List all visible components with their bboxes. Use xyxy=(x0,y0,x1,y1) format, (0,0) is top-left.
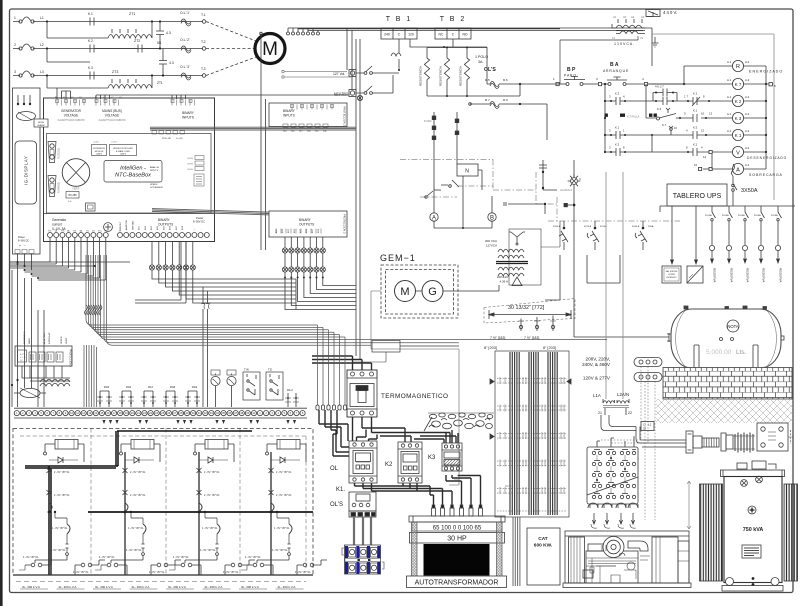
svg-text:A: A xyxy=(736,167,740,173)
GEM-1 dashed enclosure xyxy=(381,265,458,318)
svg-text:21: 21 xyxy=(598,411,602,415)
branch ratings xyxy=(705,214,778,217)
svg-text:BINARY: BINARY xyxy=(182,111,195,115)
InteliGen nameplate xyxy=(104,161,162,183)
CT coil ZT3 under L3 xyxy=(47,74,153,88)
svg-text:2L- 300 k.V.A: 2L- 300 k.V.A xyxy=(278,585,296,589)
svg-text:K 1: K 1 xyxy=(735,133,742,138)
exhaust elbow xyxy=(628,541,648,551)
svg-text:GEM−1: GEM−1 xyxy=(380,253,416,263)
riser pair with wave breaks xyxy=(201,287,210,407)
svg-text:1: 1 xyxy=(14,16,16,20)
genset radiator xyxy=(569,537,585,583)
TB1 terminal block xyxy=(381,28,417,39)
svg-text:CO: CO xyxy=(92,231,95,233)
breaker feed wires top xyxy=(312,356,372,370)
RESERVA labels xyxy=(713,268,783,283)
svg-text:RA7: RA7 xyxy=(148,385,154,389)
staircase wire bundle left xyxy=(152,270,296,303)
actuator stem xyxy=(573,160,575,177)
mech dash-dot links xyxy=(400,160,680,222)
svg-text:3X70 A: 3X70 A xyxy=(584,225,592,228)
svg-text:L2A/N: L2A/N xyxy=(617,392,629,397)
svg-text:4 - IN.* 45* OL: 4 - IN.* 45* OL xyxy=(295,571,311,574)
PLC bottom wire comb xyxy=(10,238,106,281)
svg-text:V: V xyxy=(736,150,740,156)
stone band upper right xyxy=(428,413,494,419)
xfmr secondary winding xyxy=(498,267,524,276)
RS-485 sub box xyxy=(66,192,79,199)
tie row bolts xyxy=(500,377,564,494)
contactor K2 xyxy=(398,442,422,483)
svg-text:CAN 2: CAN 2 xyxy=(120,153,127,156)
svg-text:NTC-BaseBox: NTC-BaseBox xyxy=(115,173,151,179)
svg-text:+ −: + − xyxy=(19,244,26,248)
drop wires TB to PLC xyxy=(356,39,360,360)
engine block xyxy=(586,544,638,583)
voltage oval 120-277 xyxy=(634,373,662,382)
svg-text:208V, 220V,: 208V, 220V, xyxy=(586,357,611,362)
svg-text:60.00.0.5: 60.00.0.5 xyxy=(505,485,516,488)
tank legs xyxy=(692,345,760,368)
svg-text:H1: H1 xyxy=(613,15,617,19)
proteccion box leads xyxy=(22,366,70,381)
proteccion1 bottom terminals xyxy=(283,124,328,128)
PLC divider xyxy=(44,213,215,215)
capacitor K2 on L2 xyxy=(90,45,94,53)
svg-text:Power: Power xyxy=(196,216,203,220)
svg-text:3X15A: 3X15A xyxy=(754,214,761,217)
retention squares row xyxy=(605,114,657,117)
svg-text:8” [203]: 8” [203] xyxy=(543,346,556,350)
indicator lamps proteccion 2 xyxy=(282,237,325,253)
svg-text:A.TTL: A.TTL xyxy=(20,353,26,356)
autotransformer terminal insulators xyxy=(432,505,483,516)
overload O.L.2 xyxy=(181,46,191,53)
terminal T1 xyxy=(202,20,206,24)
terminal T2 xyxy=(202,47,206,51)
svg-text:K.1: K.1 xyxy=(88,12,93,16)
svg-text:4 - IN.* 45* OL: 4 - IN.* 45* OL xyxy=(200,549,216,552)
IG-DISPLAY screen xyxy=(15,141,37,204)
MODBUS link box xyxy=(34,119,48,127)
CT oval xyxy=(14,388,46,398)
svg-text:240: 240 xyxy=(384,33,390,37)
svg-text:G: G xyxy=(428,286,437,298)
UPS branch circuits xyxy=(709,206,781,258)
svg-text:ZT3: ZT3 xyxy=(112,70,118,74)
svg-text:IF MAIN CONN.: IF MAIN CONN. xyxy=(116,150,131,153)
svg-text:3X15A: 3X15A xyxy=(771,214,778,217)
phase line L2 xyxy=(13,44,203,50)
PT fuse chain a xyxy=(432,112,436,160)
svg-text:Generator: Generator xyxy=(52,218,67,222)
transformer base and wheels xyxy=(722,577,783,591)
K2/K1 bottom cross bus xyxy=(355,483,437,491)
svg-text:3x120/277VAC/0.1MB/4Hz: 3x120/277VAC/0.1MB/4Hz xyxy=(98,119,126,122)
svg-text:BINARY: BINARY xyxy=(283,109,296,113)
autotransformer top plate xyxy=(409,516,505,522)
svg-text:4 - IN.* 45* OL: 4 - IN.* 45* OL xyxy=(149,571,165,574)
svg-text:NO: NO xyxy=(462,33,467,37)
svg-text:1 - IN.* 45* OL: 1 - IN.* 45* OL xyxy=(52,527,68,530)
svg-text:RESERVA: RESERVA xyxy=(713,268,717,283)
capacitor K3 on L3 xyxy=(90,72,94,80)
svg-text:OHMS: OHMS xyxy=(187,158,194,160)
svg-text:ALTA TEMP: ALTA TEMP xyxy=(43,332,46,344)
wire motor aux to proteccion xyxy=(260,32,266,250)
bushing ribbed body xyxy=(693,436,719,448)
svg-text:VERIF: VERIF xyxy=(66,337,68,344)
svg-text:RA6: RA6 xyxy=(126,385,132,389)
coil K1 xyxy=(732,129,766,140)
diesel tank xyxy=(671,309,781,368)
svg-text:K.2: K.2 xyxy=(615,92,620,96)
L1 L2 junction box xyxy=(641,422,654,431)
RA aux contact groups xyxy=(97,391,200,407)
BP PARO stop button xyxy=(560,77,599,86)
resistencia R3 xyxy=(464,48,469,97)
autotransformer tap row xyxy=(412,522,502,531)
aux nodes right xyxy=(504,202,546,214)
one line: motor operator xyxy=(568,174,581,221)
busbar group 1 xyxy=(510,352,519,515)
proteccion wire tags xyxy=(23,331,68,344)
BA ARRANQUE start button xyxy=(602,77,645,86)
genset skid xyxy=(563,531,691,588)
svg-text:A.1: A.1 xyxy=(727,60,732,64)
left rail wires xyxy=(11,270,44,407)
starter branch 2 xyxy=(95,440,181,576)
svg-text:T/G: T/G xyxy=(73,231,77,233)
coil A ammeter xyxy=(732,163,766,174)
dim line transformer xyxy=(687,481,691,529)
PLC terminal labels top xyxy=(55,97,122,99)
capacitor K1 on L1 xyxy=(90,18,94,26)
rung K2: parallel contact box xyxy=(648,89,685,106)
svg-text:1 - IN.* 45* OL: 1 - IN.* 45* OL xyxy=(128,527,144,530)
svg-text:200 VCA: 200 VCA xyxy=(485,239,497,243)
svg-text:SPEED: SPEED xyxy=(61,336,63,344)
TERMOMAGNETICO breaker xyxy=(347,370,377,417)
svg-text:K.1: K.1 xyxy=(693,109,698,113)
svg-text:3L- 300 k.V.A: 3L- 300 k.V.A xyxy=(22,585,40,589)
bushing left plate xyxy=(686,431,693,453)
svg-text:O.L.’2’: O.L.’2’ xyxy=(180,38,190,42)
svg-text:2L- 300 k.V.A: 2L- 300 k.V.A xyxy=(132,585,150,589)
tank gauge dots xyxy=(720,338,734,341)
M-G shaft xyxy=(416,290,423,292)
svg-text:T.3: T.3 xyxy=(201,67,206,71)
tank top fittings xyxy=(684,306,784,340)
svg-text:K.3: K.3 xyxy=(657,107,662,111)
PROTECCION 2 module upper xyxy=(269,103,347,127)
lamp B xyxy=(488,196,496,221)
thyristor bus xyxy=(88,511,313,513)
svg-text:RA5: RA5 xyxy=(104,385,110,389)
coil K2 xyxy=(732,95,766,106)
PLC right mini boxes xyxy=(194,156,204,187)
svg-text:8” [203]: 8” [203] xyxy=(484,346,497,350)
gray band PLC outputs to proteccion2 xyxy=(152,209,269,215)
rung K3: K7 timed switch xyxy=(646,84,732,122)
bundle corner risers xyxy=(135,241,296,310)
svg-text:K.2: K.2 xyxy=(88,39,93,43)
svg-text:3X5A: 3X5A xyxy=(648,225,654,228)
rung A feed xyxy=(699,154,733,171)
wire gem box to termo xyxy=(400,345,459,347)
svg-text:D+ (R): D+ (R) xyxy=(176,138,183,140)
svg-text:INTERCONTROLLER: INTERCONTROLLER xyxy=(113,148,133,150)
gray band PLC to proteccion1 xyxy=(150,127,356,130)
terminal tags xyxy=(48,230,122,233)
svg-text:30 HP: 30 HP xyxy=(447,536,467,543)
AUTOTRANSFORMADOR label box xyxy=(407,576,507,588)
PLC generator voltage taps up xyxy=(57,88,71,99)
svg-text:RESISTENCIA: RESISTENCIA xyxy=(419,66,423,86)
svg-text:L1: L1 xyxy=(40,16,44,20)
secondary feed to ladder xyxy=(557,36,638,84)
svg-text:K 3: K 3 xyxy=(735,116,742,121)
svg-text:K.3: K.3 xyxy=(615,143,620,147)
GEM feed wire xyxy=(371,291,459,485)
svg-text:T/G: T/G xyxy=(48,231,52,233)
svg-text:L3: L3 xyxy=(40,70,44,74)
svg-text:4 - IN.* 45* OL: 4 - IN.* 45* OL xyxy=(126,549,142,552)
svg-text:4.3: 4.3 xyxy=(166,31,171,35)
NEUTRO run to PLC mains terminals xyxy=(96,95,349,99)
ground hatch under wall xyxy=(656,399,793,423)
W meter box xyxy=(0,0,1,1)
main gray wire bundle xyxy=(86,255,607,339)
matrix dots xyxy=(596,457,626,481)
svg-text:CAT: CAT xyxy=(538,536,548,542)
svg-text:K.1: K.1 xyxy=(615,126,620,130)
svg-text:22: 22 xyxy=(628,411,632,415)
aux contact chain right xyxy=(539,160,557,190)
svg-text:VOLTAGE: VOLTAGE xyxy=(105,114,120,118)
svg-text:A.2: A.2 xyxy=(745,60,750,64)
svg-text:A.1: A.1 xyxy=(727,78,732,82)
svg-text:A.2: A.2 xyxy=(745,112,750,116)
svg-text:D E S E N E R G I Z A D O: D E S E N E R G I Z A D O xyxy=(747,156,787,160)
CAT genset box xyxy=(527,528,560,585)
display wires down xyxy=(18,254,32,271)
main terminal strip xyxy=(14,408,307,418)
staircase wire bundle right xyxy=(285,278,356,310)
rung K2: contact K1 timer xyxy=(685,97,732,106)
svg-text:H3: H3 xyxy=(623,15,627,19)
svg-text:4 - IN.* 45* OL: 4 - IN.* 45* OL xyxy=(173,556,189,559)
gray risers to L1A xyxy=(606,172,623,399)
svg-text:PARO: PARO xyxy=(28,338,31,344)
matrix diagonal xyxy=(587,477,638,495)
svg-text:OL’S: OL’S xyxy=(484,67,496,73)
indicator lamps PLC outputs xyxy=(149,241,195,270)
wires to autotransformer terminals xyxy=(430,475,481,508)
svg-text:INCENDIO: INCENDIO xyxy=(667,277,677,279)
busbar group 3 xyxy=(548,352,557,515)
rung K1 xyxy=(605,131,732,152)
svg-text:ZT2: ZT2 xyxy=(134,39,140,43)
svg-text:GENERATOR: GENERATOR xyxy=(61,109,82,113)
bundle vertical continuation to strip xyxy=(84,345,97,407)
drops from boxes region xyxy=(545,255,620,300)
svg-text:B A: B A xyxy=(610,62,619,68)
svg-text:2 - IN.* 45* OL: 2 - IN.* 45* OL xyxy=(130,471,146,474)
ladder node 5 xyxy=(769,83,772,86)
lamp A xyxy=(430,213,438,221)
TB2 terminal block xyxy=(435,28,471,39)
svg-text:5,000.00: 5,000.00 xyxy=(706,349,732,356)
svg-text:H4: H4 xyxy=(641,15,645,19)
svg-text:A: A xyxy=(432,216,436,222)
tank inlet fitting xyxy=(667,333,671,342)
3X50A fuse xyxy=(732,176,737,206)
rung K2: contact K2 xyxy=(605,97,648,105)
svg-text:R.6: R.6 xyxy=(503,78,508,82)
PT fuse chain b xyxy=(455,112,459,160)
svg-text:current: current xyxy=(52,223,62,227)
taps 21 22 xyxy=(605,408,626,415)
svg-text:1 POLO: 1 POLO xyxy=(475,55,488,59)
svg-text:CONTR: CONTR xyxy=(668,274,676,276)
svg-text:2L- 300 k.V.A: 2L- 300 k.V.A xyxy=(59,585,77,589)
starter branch 3 xyxy=(169,440,255,576)
L1A transformer xyxy=(603,399,629,408)
strip exit arrows xyxy=(102,418,296,424)
svg-text:2 - IN.* 45* OL: 2 - IN.* 45* OL xyxy=(276,494,292,497)
lug terminals xyxy=(316,405,347,410)
control xfmr 440V fuse box xyxy=(646,10,660,17)
rubble stone band mid xyxy=(424,417,492,431)
svg-text:RESERVA: RESERVA xyxy=(730,268,734,283)
gray bundle to autotransformer zone xyxy=(449,480,459,485)
dimension arrows xyxy=(489,310,571,319)
TABLERO UPS box xyxy=(667,184,727,206)
svg-text:3: 3 xyxy=(14,70,16,74)
750kVA tank xyxy=(724,477,782,583)
feeder labels row xyxy=(16,581,306,583)
svg-text:5/1: 5/1 xyxy=(157,41,162,45)
GEM motor circle xyxy=(395,281,416,302)
svg-text:2: 2 xyxy=(14,43,16,47)
svg-text:B: B xyxy=(490,216,494,222)
neutro lamp right of proteccion xyxy=(357,95,362,100)
dash-dot feeder bus done above; breaker drops xyxy=(559,221,647,250)
svg-text:240V, & 480V: 240V, & 480V xyxy=(582,362,611,367)
IG-DISPLAY module xyxy=(13,88,41,254)
bundle extra pair xyxy=(104,255,459,345)
generator end xyxy=(652,537,689,583)
svg-text:AUTOTRANSFORMADOR: AUTOTRANSFORMADOR xyxy=(415,580,499,587)
svg-text:13: 13 xyxy=(709,112,713,116)
busbar drop group below tower xyxy=(513,517,520,586)
busbar tie rows dashed xyxy=(497,379,567,512)
knife switch NEUTRO xyxy=(356,75,393,94)
svg-text:A.1: A.1 xyxy=(727,129,732,133)
knife switch 127V xyxy=(356,66,400,74)
svg-text:IG-DISPLAY: IG-DISPLAY xyxy=(24,156,29,185)
svg-text:K.1: K.1 xyxy=(693,92,698,96)
contactor K3 xyxy=(442,443,462,471)
svg-text:R.5: R.5 xyxy=(485,78,490,82)
breaker load wires xyxy=(353,417,457,443)
svg-text:4 Y 10: 4 Y 10 xyxy=(20,357,27,359)
DB9 port RS232 xyxy=(48,142,56,163)
svg-text:2 - IN.* 45* OL: 2 - IN.* 45* OL xyxy=(130,494,146,497)
svg-text:1 - IN.* 45* OL: 1 - IN.* 45* OL xyxy=(202,527,218,530)
control transformer secondary xyxy=(616,31,645,34)
analog meter circle xyxy=(62,159,90,187)
svg-text:ALARM: ALARM xyxy=(38,124,45,127)
svg-text:30 13/32” [772]: 30 13/32” [772] xyxy=(508,305,545,311)
intercontroller box xyxy=(110,145,137,156)
NOTA circle xyxy=(727,320,739,332)
svg-text:K3: K3 xyxy=(428,455,436,461)
resistencia R2 xyxy=(444,48,449,97)
svg-text:750 kVA: 750 kVA xyxy=(743,527,764,533)
USB port xyxy=(86,203,96,211)
contactor K1 xyxy=(349,441,377,483)
N transformer box xyxy=(457,164,478,176)
svg-text:P.ARC: P.ARC xyxy=(424,119,432,123)
svg-text:4 - IN.* 45* OL: 4 - IN.* 45* OL xyxy=(50,549,66,552)
svg-text:RESISTENCIA: RESISTENCIA xyxy=(459,66,463,86)
svg-text:4 - IN.* 45* OL: 4 - IN.* 45* OL xyxy=(272,549,288,552)
junction dots comb xyxy=(17,263,40,279)
svg-text:L2: L2 xyxy=(40,43,44,47)
radiator fins left xyxy=(700,484,723,581)
delta symbol xyxy=(512,277,522,286)
svg-text:K 2: K 2 xyxy=(735,99,742,104)
PLC right labels xyxy=(150,138,183,189)
motor lead drops from gray bundle xyxy=(319,410,349,456)
svg-text:10: 10 xyxy=(701,112,705,116)
matrix contacts xyxy=(592,452,600,496)
svg-text:A.2: A.2 xyxy=(745,78,750,82)
svg-text:OHMS: OHMS xyxy=(187,169,194,171)
svg-text:PROTECCION 2: PROTECCION 2 xyxy=(343,107,347,127)
PLC outer box xyxy=(44,98,215,242)
svg-text:VEROUT: VEROUT xyxy=(120,221,122,230)
svg-text:X2: X2 xyxy=(640,36,644,40)
svg-text:VERIF.: VERIF. xyxy=(72,188,80,191)
svg-text:O.L.’3’: O.L.’3’ xyxy=(180,65,190,69)
svg-text:K.3: K.3 xyxy=(88,66,93,70)
svg-text:3X: 3X xyxy=(643,428,646,431)
resistencia R1 xyxy=(424,48,429,97)
bushing bellows xyxy=(733,433,755,453)
autotransformer core black xyxy=(424,544,490,576)
top control bundle wires xyxy=(288,28,645,30)
drop wires to 127V terminals xyxy=(347,28,352,90)
svg-text:P A R O: P A R O xyxy=(564,74,576,78)
svg-text:3X40 A: 3X40 A xyxy=(632,225,640,228)
svg-text:OUTPUTS: OUTPUTS xyxy=(299,223,314,227)
svg-text:RS485(2): RS485(2) xyxy=(57,182,61,193)
display CT ellipse xyxy=(17,112,36,121)
heavy feeder leads xyxy=(25,431,252,575)
svg-text:M: M xyxy=(262,39,278,60)
one line nodes xyxy=(564,203,575,206)
svg-text:127 Vol.: 127 Vol. xyxy=(333,72,345,76)
bottom return bus xyxy=(13,574,313,576)
motor M xyxy=(255,34,285,64)
PLC top terminal ticks xyxy=(56,100,195,106)
svg-text:PROTECCION 2: PROTECCION 2 xyxy=(69,349,72,368)
svg-text:120V & 277V: 120V & 277V xyxy=(583,376,611,381)
